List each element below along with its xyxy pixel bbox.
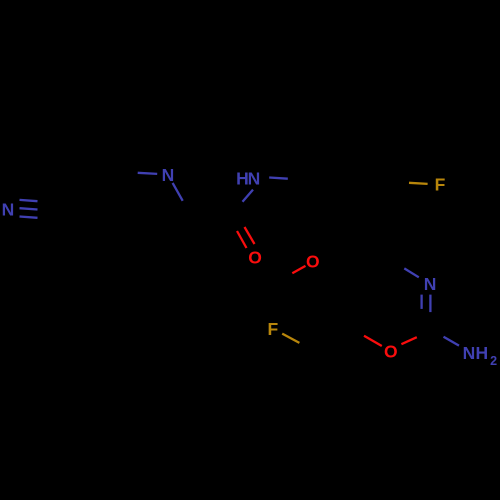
NH2 stub <box>444 337 460 346</box>
svg-text:O: O <box>306 251 320 271</box>
svg-text:O: O <box>248 247 262 267</box>
svg-text:H: H <box>475 343 488 363</box>
svg-text:N: N <box>463 343 476 363</box>
ether O stub <box>292 266 305 273</box>
svg-text:N: N <box>424 274 437 294</box>
HN stubs <box>243 178 288 202</box>
CH2F stub <box>282 334 299 343</box>
C=O double bond red halves <box>237 227 255 248</box>
svg-text:N: N <box>162 165 175 185</box>
svg-text:F: F <box>435 175 446 195</box>
svg-text:F: F <box>268 319 279 339</box>
svg-text:2: 2 <box>490 354 497 368</box>
pyridine N stubs <box>138 173 183 201</box>
svg-text:N: N <box>2 200 15 220</box>
nitrile triple bond stubs <box>20 200 38 218</box>
svg-text:N: N <box>248 168 261 188</box>
oxazine O stubs <box>364 336 417 346</box>
F top right stub <box>409 183 428 184</box>
oxazine N stubs <box>404 268 430 312</box>
svg-text:O: O <box>384 342 398 362</box>
